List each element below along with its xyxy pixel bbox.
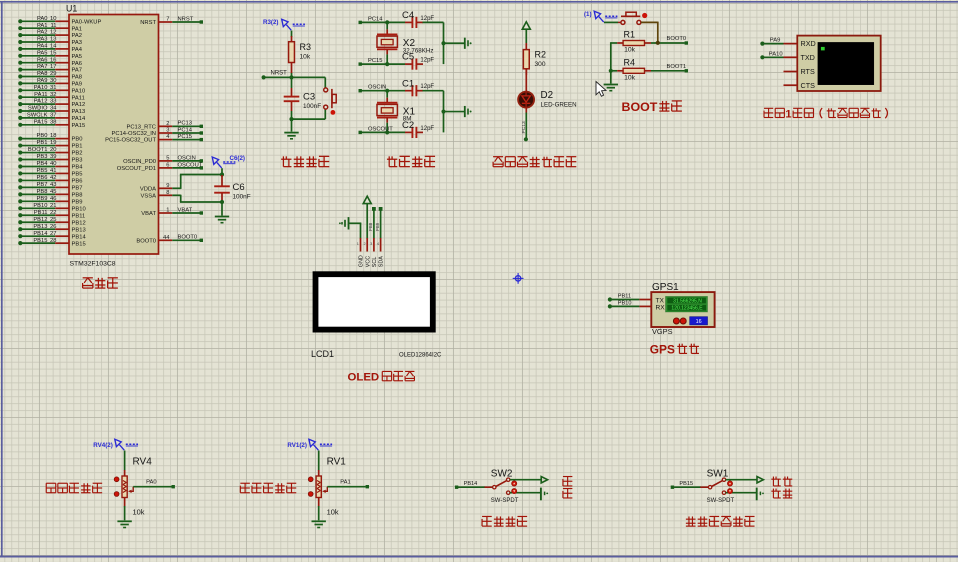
svg-text:VGPS: VGPS <box>652 327 673 336</box>
wire flag to R3 <box>291 31 293 38</box>
svg-text:PB7: PB7 <box>37 182 48 188</box>
svg-text:18: 18 <box>50 133 56 139</box>
svg-text:19: 19 <box>50 140 56 146</box>
toggle buttons SW1 <box>727 481 732 494</box>
svg-text:34: 34 <box>50 106 57 112</box>
svg-text:PB10: PB10 <box>72 206 86 212</box>
U1 pin 44 BOOT0 <box>136 235 172 245</box>
wire VSSA to C6 bottom <box>172 195 222 202</box>
wire VDDA to C6 top <box>172 175 222 189</box>
svg-text:PB10: PB10 <box>33 203 47 209</box>
wire PB10 to U1 pin 21 <box>18 203 85 213</box>
wire PB11 to U1 pin 22 <box>18 210 85 220</box>
red label 跌倒 <box>772 477 774 486</box>
wire RV1 to ground <box>318 506 320 520</box>
svg-text:PA13: PA13 <box>72 109 86 115</box>
svg-text:PC13: PC13 <box>521 121 527 134</box>
svg-text:PA12: PA12 <box>72 102 86 108</box>
OLED pin 2 VCC <box>363 238 371 267</box>
svg-text:OLED12864I2C: OLED12864I2C <box>399 353 442 359</box>
wire C1 to ground rail <box>423 91 465 133</box>
junction crystal ground rail <box>441 109 445 113</box>
wire SW1 upper throw to power <box>726 479 758 481</box>
svg-text:PB1: PB1 <box>37 140 48 146</box>
U1 pin 8 VSSA <box>141 190 173 200</box>
svg-text:SWCLK: SWCLK <box>27 113 48 119</box>
LCD1 OLED display body <box>313 271 436 332</box>
svg-text:PA8: PA8 <box>72 75 83 81</box>
U1 pin 9 VDDA <box>140 183 172 193</box>
wire PA1 to U1 pin 11 <box>18 23 82 33</box>
wire PB10 to RX <box>608 300 640 308</box>
wire net PC15 <box>359 58 406 66</box>
svg-text:PB14: PB14 <box>464 481 478 487</box>
svg-text:33: 33 <box>50 99 56 105</box>
red title 体温值调节 <box>46 482 56 484</box>
svg-text:PB15: PB15 <box>33 238 47 244</box>
svg-text:PB1: PB1 <box>72 144 83 150</box>
svg-text:PB7: PB7 <box>72 185 83 191</box>
svg-text:100nF: 100nF <box>303 103 321 110</box>
svg-text:NRST: NRST <box>178 16 194 22</box>
svg-text:U1: U1 <box>66 4 77 14</box>
toggle buttons SW2 <box>512 481 517 494</box>
svg-text:PA1: PA1 <box>72 26 83 32</box>
red title 心率值调节 <box>240 482 250 484</box>
svg-text:GND: GND <box>359 255 365 267</box>
wire net OSCOUT <box>359 126 406 134</box>
wire RV4 to ground <box>124 506 126 520</box>
capacitor C2 12pF <box>402 120 434 138</box>
red title 老人状态监测 <box>688 516 690 526</box>
svg-text:120.123456,E: 120.123456,E <box>671 306 703 312</box>
svg-text:100nF: 100nF <box>233 194 251 201</box>
svg-text:45: 45 <box>50 189 56 195</box>
wire SW2 upper throw to power <box>510 479 542 481</box>
svg-text:PB0: PB0 <box>72 137 83 143</box>
svg-text:10: 10 <box>50 16 56 22</box>
svg-text:1: 1 <box>166 208 169 214</box>
wire C6 probe stub <box>221 168 223 175</box>
mouse cursor <box>596 82 606 97</box>
wire R4 to BOOT1 <box>651 64 688 73</box>
push button (reset) <box>324 88 337 115</box>
switch SW1 SW-SPDT <box>700 469 734 504</box>
svg-text:PC14: PC14 <box>178 127 193 133</box>
ground SW1 <box>757 488 764 501</box>
terminal cursor <box>821 47 825 51</box>
svg-text:PA7: PA7 <box>37 64 48 70</box>
resistor R3 <box>289 36 311 74</box>
svg-text:CTS: CTS <box>801 81 816 90</box>
OLED pin GND wire to ground <box>349 223 361 238</box>
svg-text:OSCOUT_PD1: OSCOUT_PD1 <box>117 166 156 172</box>
U1 pin 3 PC14 <box>112 128 173 138</box>
wire PB8 to U1 pin 45 <box>18 189 82 199</box>
wire R2 to D2 <box>525 69 527 92</box>
svg-text:10k: 10k <box>133 508 145 517</box>
wire PB4 to U1 pin 40 <box>18 161 83 171</box>
svg-text:NRST: NRST <box>140 20 156 26</box>
svg-text:PB11: PB11 <box>618 294 631 300</box>
wire NRST node <box>262 71 326 80</box>
svg-text:RXD: RXD <box>801 39 816 48</box>
svg-text:10k: 10k <box>300 54 311 61</box>
svg-text:VCC: VCC <box>365 256 371 267</box>
svg-text:VSSA: VSSA <box>141 193 157 199</box>
junction crystal ground rail <box>441 41 445 45</box>
svg-text:PA0: PA0 <box>37 16 48 22</box>
svg-text:46: 46 <box>50 196 56 202</box>
svg-text:31.566295,N: 31.566295,N <box>673 298 702 304</box>
svg-text:SDA: SDA <box>379 256 385 267</box>
svg-text:RX: RX <box>656 304 666 311</box>
wire PA1 from RV1 wiper <box>327 479 369 488</box>
blue origin marker <box>513 273 524 284</box>
wire flag to boot button <box>604 21 618 23</box>
wire PB14 to SW2 <box>455 481 485 489</box>
push button (BOOT0 select) <box>618 12 647 24</box>
red label 左 <box>563 476 572 478</box>
svg-text:PA11: PA11 <box>34 92 47 98</box>
U1 pin 5 OSCIN <box>123 156 172 166</box>
wire PB9 to U1 pin 46 <box>18 196 82 206</box>
svg-text:TXD: TXD <box>801 53 815 62</box>
probe flag (1) <box>584 11 617 22</box>
svg-text:8: 8 <box>166 190 169 196</box>
svg-text:PB4: PB4 <box>37 161 49 167</box>
svg-text:PA3: PA3 <box>72 40 83 46</box>
svg-text:OSCIN: OSCIN <box>178 155 196 161</box>
wire PA12 to U1 pin 33 <box>18 99 85 109</box>
wire net BOOT0 <box>172 235 203 242</box>
OLED pin 3 SCL <box>370 238 378 267</box>
svg-text:PB4: PB4 <box>72 165 84 171</box>
ground left of OLED <box>339 217 349 229</box>
wire PA15 to U1 pin 38 <box>18 119 85 128</box>
svg-text:PB11: PB11 <box>34 210 48 216</box>
svg-text:PB3: PB3 <box>72 158 83 164</box>
wire SDA <box>375 207 383 239</box>
svg-text:7: 7 <box>166 17 169 23</box>
svg-text:1: 1 <box>785 108 791 120</box>
svg-text:OLED: OLED <box>348 372 380 384</box>
svg-text:PA10: PA10 <box>34 85 48 91</box>
svg-text:PB9: PB9 <box>72 199 83 205</box>
svg-text:PB15: PB15 <box>679 481 693 487</box>
switch SW2 SW-SPDT <box>485 469 519 504</box>
svg-text:12pF: 12pF <box>420 84 434 90</box>
wire C6 to ground <box>221 202 223 216</box>
power arrow for R2 <box>522 22 530 29</box>
svg-text:39: 39 <box>50 154 56 160</box>
svg-text:4: 4 <box>377 242 379 246</box>
svg-text:12pF: 12pF <box>420 16 434 22</box>
svg-text:9: 9 <box>166 183 169 189</box>
svg-text:SW-SPDT: SW-SPDT <box>491 498 519 504</box>
wire SCL <box>368 207 376 239</box>
svg-text:300: 300 <box>535 61 546 68</box>
svg-text:10k: 10k <box>624 47 636 54</box>
GPS status LEDs <box>673 318 686 324</box>
svg-text:PA1: PA1 <box>37 23 48 29</box>
svg-text:R2: R2 <box>535 50 547 60</box>
wire SW1 lower throw to ground <box>726 492 757 494</box>
svg-text:21: 21 <box>50 203 56 209</box>
ground SW2 <box>541 488 548 501</box>
svg-text:PB14: PB14 <box>33 231 48 237</box>
svg-text:12pF: 12pF <box>420 126 434 132</box>
svg-text:C6(2): C6(2) <box>230 155 245 162</box>
crystal X1 8M <box>377 89 415 135</box>
wire SWDIO to U1 pin 34 <box>18 106 85 116</box>
wire PA7 to U1 pin 17 <box>18 64 82 74</box>
svg-text:16: 16 <box>696 319 702 325</box>
U1 pin 1 VBAT <box>141 208 172 218</box>
svg-text:PA9: PA9 <box>72 82 83 88</box>
svg-text:C3: C3 <box>303 91 315 102</box>
wire R1 to BOOT0 <box>651 36 688 45</box>
junction node C6 bottom <box>220 200 224 204</box>
svg-text:BOOT0: BOOT0 <box>136 238 156 244</box>
probe flag C6(2) <box>212 155 245 168</box>
svg-text:PA0-WKUP: PA0-WKUP <box>72 19 102 25</box>
svg-text:44: 44 <box>163 235 170 241</box>
wire net PC14 <box>172 127 203 134</box>
svg-text:27: 27 <box>50 231 56 237</box>
power arrow SW1 <box>757 477 763 483</box>
U1 pin 2 PC13 <box>126 121 172 130</box>
probe flag RV1(2) <box>287 439 332 450</box>
capacitor C5 12pF <box>402 52 434 70</box>
svg-text:PB9: PB9 <box>375 222 380 231</box>
probe flag RV4(2) <box>93 439 138 450</box>
svg-text:PB13: PB13 <box>33 224 47 230</box>
svg-text:PA6: PA6 <box>72 61 83 67</box>
svg-text:PC14-OSC32_IN: PC14-OSC32_IN <box>112 131 156 137</box>
svg-text:GPS: GPS <box>650 342 675 356</box>
wire net OSCIN <box>172 155 203 162</box>
svg-text:PB9: PB9 <box>37 196 48 202</box>
svg-text:38: 38 <box>50 119 56 125</box>
svg-text:PA11: PA11 <box>72 95 85 101</box>
wire PB12 to U1 pin 25 <box>18 217 85 227</box>
junction node C6 top <box>220 172 224 176</box>
red title 主芯片 <box>83 277 93 279</box>
sheet border bottom <box>0 556 958 558</box>
GPS blue counter box <box>690 317 708 325</box>
OLED pin 4 SDA <box>377 238 385 267</box>
capacitor C6 <box>214 175 251 202</box>
svg-text:PB13: PB13 <box>72 227 86 233</box>
svg-text:PA15: PA15 <box>72 123 86 129</box>
wire PA5 to U1 pin 15 <box>18 50 82 60</box>
red title 晶振电路 <box>388 156 390 166</box>
wire PB0 to U1 pin 18 <box>18 133 82 143</box>
capacitor C4 12pF <box>402 10 434 28</box>
wire power to R2 <box>525 29 527 43</box>
wire net OSCIN <box>359 85 406 93</box>
svg-text:NRST: NRST <box>271 71 288 77</box>
red label 右 <box>563 488 572 490</box>
terminal screen <box>818 42 874 84</box>
svg-text:C4: C4 <box>402 10 414 21</box>
wire SWCLK to U1 pin 37 <box>18 113 86 123</box>
wire SW2 lower throw to ground <box>510 492 541 494</box>
svg-text:PC13_RTC: PC13_RTC <box>126 124 156 130</box>
svg-text:OSCIN_PD0: OSCIN_PD0 <box>123 159 156 165</box>
terminal pin RTS <box>784 71 798 73</box>
ground for X2 <box>465 38 472 49</box>
svg-text:1: 1 <box>357 242 359 246</box>
svg-text:PA10: PA10 <box>72 88 86 94</box>
svg-text:2: 2 <box>363 242 365 246</box>
svg-text:10k: 10k <box>327 508 339 517</box>
crystal X2 32.768KHz <box>377 20 433 66</box>
svg-text:PB15: PB15 <box>72 241 86 247</box>
svg-text:PA9: PA9 <box>770 38 781 44</box>
svg-text:17: 17 <box>50 64 56 70</box>
svg-text:SWDIO: SWDIO <box>28 106 48 112</box>
ground below C6 <box>215 217 229 223</box>
terminal pin TXD <box>784 56 798 58</box>
svg-text:PB10: PB10 <box>618 300 632 306</box>
OLED pin 1 GND <box>357 238 365 267</box>
wire PA3 to U1 pin 13 <box>18 37 82 47</box>
wire to reset button <box>324 77 326 119</box>
ground below C3 <box>284 133 298 139</box>
svg-text:R3(2): R3(2) <box>263 19 278 26</box>
svg-text:PA4: PA4 <box>37 44 48 50</box>
wire flag to RV1 <box>318 451 320 471</box>
svg-text:14: 14 <box>50 44 57 50</box>
svg-text:3: 3 <box>166 128 169 134</box>
wire PB15 to U1 pin 28 <box>18 238 85 248</box>
svg-text:40: 40 <box>50 161 56 167</box>
sheet border top <box>0 1 958 3</box>
svg-text:(1): (1) <box>584 11 592 18</box>
svg-text:D2: D2 <box>541 90 554 101</box>
virtual terminal 串口1 body <box>797 36 880 91</box>
svg-text:PA2: PA2 <box>37 30 48 36</box>
svg-text:PB6: PB6 <box>37 175 48 181</box>
svg-text:PB8: PB8 <box>72 192 83 198</box>
svg-text:VDDA: VDDA <box>140 186 156 192</box>
OLED pin VCC wire to power <box>366 203 368 239</box>
svg-text:BOOT0: BOOT0 <box>178 235 198 241</box>
svg-text:OSCOUT: OSCOUT <box>368 126 393 132</box>
wire PB7 to U1 pin 43 <box>18 182 82 192</box>
svg-text:6: 6 <box>166 163 169 169</box>
red title 步数监测 <box>482 515 492 517</box>
svg-text:2: 2 <box>166 121 169 127</box>
svg-text:26: 26 <box>50 224 56 230</box>
svg-text:SW2: SW2 <box>491 469 513 480</box>
red title 串口1窗口（模拟手机端） <box>764 107 773 109</box>
wire PB3 to U1 pin 39 <box>18 154 82 164</box>
svg-text:42: 42 <box>50 175 56 181</box>
svg-text:22: 22 <box>50 210 56 216</box>
junction node PC13 <box>524 137 528 141</box>
svg-text:PC15: PC15 <box>178 134 193 140</box>
svg-text:PC15: PC15 <box>368 58 383 64</box>
wire PA2 to U1 pin 12 <box>18 30 82 40</box>
svg-text:C6: C6 <box>233 182 245 193</box>
svg-text:12: 12 <box>50 30 56 36</box>
capacitor C3 <box>284 77 322 111</box>
wire D2 to node PC13 <box>521 113 527 140</box>
capacitor C1 12pF <box>402 78 434 96</box>
wire PA10 to U1 pin 31 <box>18 85 85 95</box>
wire PA10 to TXD <box>760 51 783 59</box>
U1 pin 4 PC15 <box>105 134 172 144</box>
wire flag to RV4 <box>124 451 126 471</box>
svg-text:PA1: PA1 <box>340 479 351 485</box>
svg-text:PB12: PB12 <box>72 220 86 226</box>
svg-text:PB6: PB6 <box>72 179 83 185</box>
wire net PC14 <box>359 16 406 24</box>
svg-text:SCL: SCL <box>372 257 378 268</box>
svg-text:25: 25 <box>50 217 56 223</box>
svg-text:3: 3 <box>370 242 372 246</box>
svg-text:STM32F103C8: STM32F103C8 <box>70 261 116 268</box>
wire net VBAT <box>172 207 203 214</box>
svg-text:PA14: PA14 <box>72 116 87 122</box>
wire PB5 to U1 pin 41 <box>18 168 82 178</box>
wire net NRST <box>172 16 203 23</box>
wire left rail to ground <box>610 42 612 83</box>
svg-text:12pF: 12pF <box>420 58 434 64</box>
wire PB15 to SW1 <box>671 481 701 489</box>
wire BOOT1 to U1 pin 20 <box>18 147 82 157</box>
svg-text:PA2: PA2 <box>72 33 83 39</box>
power arrow SW2 <box>541 477 547 483</box>
svg-text:C5: C5 <box>402 52 414 63</box>
svg-text:PA10: PA10 <box>769 51 783 57</box>
svg-text:PA12: PA12 <box>34 99 48 105</box>
svg-text:PC15-OSC32_OUT: PC15-OSC32_OUT <box>105 138 156 144</box>
svg-text:PA4: PA4 <box>72 47 83 53</box>
svg-text:LED-GREEN: LED-GREEN <box>541 101 577 108</box>
wire PB6 to U1 pin 42 <box>18 175 82 185</box>
svg-text:C2: C2 <box>402 120 414 131</box>
terminal pin CTS <box>784 84 798 86</box>
red title 程序运行指示灯 <box>493 156 503 158</box>
wire net PC13 <box>172 121 203 128</box>
svg-text:RV4(2): RV4(2) <box>93 442 113 449</box>
svg-text:PA7: PA7 <box>72 68 83 74</box>
U1 pin 6 OSCOUT <box>117 163 173 173</box>
wire PA6 to U1 pin 16 <box>18 57 82 67</box>
wire PB1 to U1 pin 19 <box>18 140 82 150</box>
potentiometer RV1 10k <box>308 456 346 516</box>
svg-text:BOOT0: BOOT0 <box>667 36 687 42</box>
sheet border left <box>1 2 3 557</box>
op-amp U1 body (STM32F103C8 MCU) <box>69 15 159 255</box>
svg-text:37: 37 <box>50 113 56 119</box>
svg-text:PA9: PA9 <box>37 78 48 84</box>
svg-text:PB5: PB5 <box>37 168 48 174</box>
svg-text:PA5: PA5 <box>72 54 83 60</box>
potentiometer RV4 10k <box>114 456 152 516</box>
GPS LCD display <box>666 296 708 312</box>
svg-text:PB3: PB3 <box>37 154 48 160</box>
GPS pin TX <box>639 299 651 301</box>
svg-text:PA5: PA5 <box>37 50 48 56</box>
svg-text:13: 13 <box>50 37 56 43</box>
svg-text:VBAT: VBAT <box>141 211 156 217</box>
svg-text:PB14: PB14 <box>72 234 87 240</box>
